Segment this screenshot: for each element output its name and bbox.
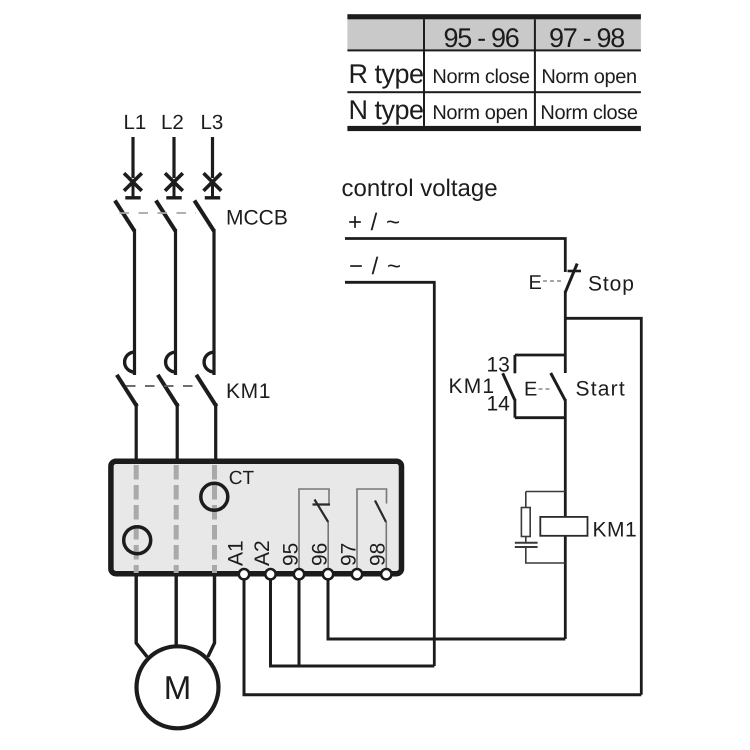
breaker MCCB pole 1 blade — [115, 201, 135, 232]
svg-text:E: E — [524, 379, 537, 401]
aux contact lower stub — [514, 399, 517, 418]
svg-text:L1: L1 — [124, 111, 147, 134]
terminal 96 — [323, 569, 333, 579]
breaker MCCB pole 2 blade — [156, 201, 176, 232]
wire minus rail — [345, 282, 434, 666]
pushbutton Stop fixed tick — [568, 270, 582, 273]
wire L1 MCCB to KM1 — [133, 229, 136, 375]
table row divider — [347, 91, 641, 93]
relay contact 95-96 lower lead — [327, 522, 329, 570]
RC snubber top wire — [526, 491, 566, 493]
terminal 98 — [381, 569, 391, 579]
table column separator 1 — [423, 19, 425, 126]
svg-text:Norm open: Norm open — [541, 66, 636, 88]
table column separator 2 — [534, 19, 536, 126]
table header background — [347, 19, 641, 49]
wire L3 KM1 to relay box — [214, 403, 217, 462]
svg-text:L3: L3 — [201, 111, 224, 134]
wire L2 KM1 to relay box — [176, 403, 179, 462]
RC snubber upper lead — [525, 492, 527, 508]
wire A1 to bottom bus — [244, 579, 641, 695]
wire stop to junction — [564, 291, 567, 373]
pushbutton Start actuator dashes — [539, 388, 552, 390]
RC snubber lower lead — [526, 547, 566, 563]
svg-text:Stop: Stop — [588, 273, 635, 296]
CT circle on L1 — [124, 527, 151, 554]
svg-text:Start: Start — [576, 378, 626, 401]
coil KM1 body — [540, 517, 587, 536]
aux contact branch bottom wire — [515, 416, 565, 419]
relay contact 95-96 blade — [315, 500, 329, 523]
svg-text:+ / ~: + / ~ — [348, 209, 401, 236]
svg-text:CT: CT — [229, 468, 255, 489]
terminal A1 — [239, 569, 249, 579]
aux contact upper stub — [514, 355, 517, 373]
svg-text:A2: A2 — [251, 540, 274, 566]
wire L1 KM1 to relay box — [135, 403, 138, 462]
svg-text:M: M — [164, 669, 192, 706]
wire A2 down — [269, 579, 272, 666]
svg-text:Norm close: Norm close — [540, 102, 637, 124]
svg-text:KM1: KM1 — [593, 519, 638, 542]
pushbutton Start blade — [551, 373, 566, 400]
terminal A2 — [265, 569, 275, 579]
breaker MCCB pole 3 blade — [194, 201, 214, 232]
svg-text:KM1: KM1 — [226, 380, 271, 403]
wire motor lead L3 — [208, 575, 215, 657]
CT circle on L3 — [201, 483, 228, 510]
wire L1 incoming — [131, 137, 134, 178]
relay contact 97-98 frame — [357, 489, 387, 570]
breaker MCCB linkage dashed — [120, 212, 197, 214]
pushbutton Stop actuator dashes — [543, 280, 563, 282]
svg-text:− / ~: − / ~ — [349, 253, 402, 280]
svg-text:97: 97 — [338, 543, 361, 566]
dashed L2 path through box — [174, 465, 179, 573]
wire L2 MCCB to KM1 — [174, 229, 177, 375]
svg-text:95: 95 — [280, 543, 303, 566]
motor M circle — [137, 646, 219, 728]
svg-text:KM1: KM1 — [449, 375, 496, 398]
disconnect F2 on L2 (X + bar) — [165, 173, 183, 198]
svg-text:E: E — [529, 272, 542, 294]
svg-text:97 - 98: 97 - 98 — [549, 23, 624, 53]
wire 96 to coil bottom — [328, 579, 565, 639]
svg-text:95 - 96: 95 - 96 — [444, 23, 519, 53]
relay contact 97-98 blade — [375, 501, 386, 523]
contactor KM1 pole 1 arc — [125, 352, 135, 372]
wire L3 MCCB to KM1 — [212, 229, 215, 375]
wire L3 incoming — [211, 137, 214, 178]
capacitor C1 plate 1 — [515, 542, 538, 544]
table bottom border bar — [347, 126, 641, 131]
wire start to coil — [564, 399, 567, 639]
resistor to capacitor lead — [525, 537, 527, 543]
wire A2/95 to minus line — [269, 665, 434, 668]
aux contact branch top wire — [515, 354, 565, 357]
disconnect F3 on L3 (X + bar) — [204, 173, 222, 198]
relay contact 95-96 frame — [299, 489, 329, 570]
relay contact 95-96 NC bar — [313, 503, 331, 505]
svg-text:MCCB: MCCB — [226, 207, 288, 230]
contactor KM1 pole 1 blade — [117, 375, 137, 407]
table: relay contact-state chart — [347, 14, 641, 131]
contactor KM1 pole 2 arc — [166, 352, 176, 372]
resistor R1 — [521, 508, 530, 537]
relay box body — [111, 461, 402, 574]
contactor KM1 pole 3 blade — [196, 375, 216, 407]
dashed L3 path through box — [212, 465, 217, 573]
wire motor lead L2 — [174, 575, 177, 646]
dashed L1 path through box — [134, 465, 139, 573]
terminal 95 — [294, 569, 304, 579]
contactor KM1 pole 2 blade — [158, 375, 178, 407]
wire motor lead L1 — [136, 575, 147, 657]
disconnect F1 on L1 (X + bar) — [124, 173, 142, 198]
svg-text:N type: N type — [349, 95, 424, 125]
svg-text:13: 13 — [487, 354, 510, 377]
contactor KM1 linkage dashed — [126, 385, 193, 387]
table top border bar — [347, 14, 641, 19]
wire junction to right branch — [565, 318, 641, 694]
contactor KM1 pole 3 arc — [204, 352, 214, 372]
svg-text:A1: A1 — [225, 540, 248, 566]
relay contact 97-98 lower lead — [385, 522, 387, 570]
svg-text:L2: L2 — [161, 111, 184, 134]
aux contact KM1 13-14 blade — [503, 373, 515, 400]
capacitor C1 plate 2 — [515, 546, 538, 548]
wire L2 incoming — [172, 137, 175, 178]
svg-text:control voltage: control voltage — [342, 175, 498, 202]
svg-text:Norm open: Norm open — [432, 102, 527, 124]
wire plus rail — [345, 239, 565, 273]
svg-text:R type: R type — [349, 59, 424, 89]
svg-text:98: 98 — [367, 543, 390, 566]
table header underline — [347, 49, 641, 51]
pushbutton Stop blade — [565, 264, 577, 293]
svg-text:96: 96 — [309, 543, 332, 566]
terminal 97 — [352, 569, 362, 579]
svg-text:Norm close: Norm close — [432, 66, 529, 88]
wire 95 down — [298, 579, 301, 666]
